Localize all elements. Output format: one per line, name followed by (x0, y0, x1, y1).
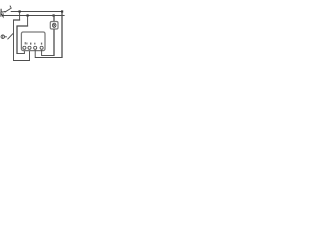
push button lever (8, 33, 14, 39)
wire extension L drop (13, 20, 15, 62)
right vertical from dot C (61, 12, 63, 59)
terminal 2 drop (29, 50, 31, 61)
junction dot A (19, 10, 21, 12)
lamp box (50, 22, 58, 30)
wire stair2 horizontal (17, 25, 29, 27)
wire bottom to terminal 2 (13, 60, 30, 62)
breaker flag tick (10, 5, 12, 8)
terminal label 2 (30, 43, 31, 45)
terminal circle 3 (34, 46, 37, 49)
extension unit circle (1, 35, 5, 39)
lamp return drop (53, 29, 55, 56)
circuit breaker lever (5, 8, 12, 12)
terminal 4 drop (41, 50, 43, 56)
background (0, 0, 65, 65)
wire stair1 vertical from dot A (19, 12, 21, 21)
terminal label 3 (34, 43, 35, 45)
junction dot D (27, 14, 29, 16)
terminal 1 drop (23, 50, 25, 54)
label L (1, 9, 3, 12)
device box (21, 32, 45, 51)
wire L stub before breaker (4, 11, 6, 13)
terminal circle 4 (40, 46, 43, 49)
lamp symbol circle (52, 23, 56, 27)
wire right to terminal 3 (35, 57, 62, 59)
wire stair1 horizontal (13, 19, 20, 21)
terminal label 4 (41, 43, 42, 45)
lamp feed vertical (53, 16, 55, 22)
label N (1, 13, 3, 17)
extension stub wire (5, 36, 7, 38)
extension unit mark (2, 35, 4, 38)
junction dot C (61, 10, 63, 12)
wire N horizontal (4, 15, 65, 17)
terminal circle 2 (28, 46, 31, 49)
junction dot B (53, 14, 55, 16)
wire stair2 vertical from dot D (27, 16, 29, 27)
wire to terminal 1 (17, 53, 25, 55)
wire L main horizontal (11, 11, 63, 13)
wire lamp to terminal 4 (42, 55, 55, 57)
terminal label 1 (25, 42, 26, 44)
wire N drop (16, 26, 18, 55)
terminal 3 drop (34, 50, 36, 58)
terminal circle 1 (23, 46, 26, 49)
lamp symbol cross (53, 24, 55, 27)
